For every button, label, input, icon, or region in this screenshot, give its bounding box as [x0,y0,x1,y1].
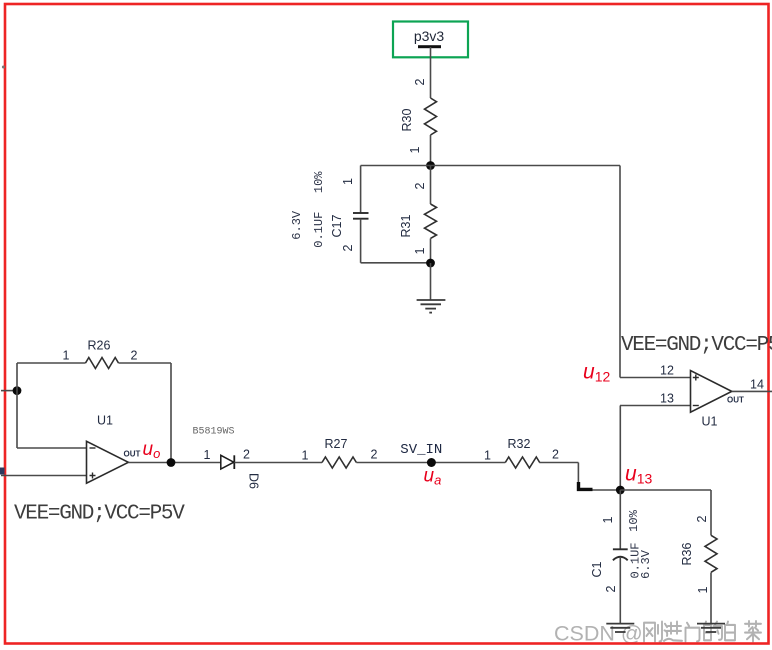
svg-text:0.1UF: 0.1UF [312,212,326,248]
pin minus mark U1 right [693,405,699,407]
wire rail horizontal [361,165,620,167]
resistor R32 [505,457,539,468]
svg-text:1: 1 [302,449,309,463]
svg-text:1: 1 [696,586,710,593]
resistor R36 [705,535,717,572]
diode D6 [221,455,234,469]
wire rail to pin12 vertical [619,166,621,378]
ground symbol R36 [697,624,725,632]
wire C17 top drop [360,166,362,214]
svg-text:U1: U1 [702,415,718,429]
svg-text:R30: R30 [400,108,414,131]
svg-text:1: 1 [341,178,355,185]
power bar symbol [418,45,441,48]
svg-text:1: 1 [413,247,427,254]
WATERMARK [554,621,761,645]
svg-text:R26: R26 [88,339,111,353]
svg-text:OUT: OUT [727,396,744,405]
svg-text:12: 12 [660,364,674,378]
resistor R26 [86,358,119,369]
svg-text:1: 1 [484,449,491,463]
wire R32 to corner [539,462,578,464]
wire junction to ground [430,263,432,300]
ground symbol C1 [606,624,634,632]
wire u13 to R36 branch [620,489,711,491]
svg-text:p3v3: p3v3 [414,28,445,44]
svg-text:2: 2 [552,448,559,462]
svg-text:C1: C1 [590,561,604,577]
wire stub thick corner [579,482,593,489]
svg-text:SV_IN: SV_IN [400,442,442,458]
op-amp U1 right [691,371,732,413]
wire diode to R27 [234,462,322,464]
wire corner down [577,463,579,484]
net stub plus input [0,468,5,475]
resistor R31 [425,204,437,238]
junction node R31/C17/GND [426,259,435,268]
wire p3v3 to R30 [430,47,432,98]
op-amp U1 left [87,441,129,483]
ground symbol top [417,300,446,313]
svg-text:VEE=GND;VCC=P5V: VEE=GND;VCC=P5V [621,334,772,357]
svg-text:2: 2 [243,448,250,462]
wire rail to R31 [430,166,432,205]
svg-text:13: 13 [660,392,674,406]
power port P3V3 green highlight box [393,22,468,58]
svg-text:6.3V: 6.3V [290,210,304,240]
svg-text:1: 1 [204,448,211,462]
capacitor C1 polarized [613,549,628,560]
junction node u_a / SV_IN [427,458,436,467]
wire R31 to junction [430,239,432,263]
svg-text:10%: 10% [312,171,326,193]
wire pin13 down to u13 [619,406,621,491]
wire u13 down to C1 [619,490,621,549]
svg-text:6.3V: 6.3V [639,549,653,579]
junction node u_13 [616,486,625,495]
svg-text:1: 1 [601,516,615,523]
wire minus input [17,447,87,449]
wire branch down to R36 [710,490,712,535]
junction node feedback [13,386,22,395]
wire C17 bottom [360,219,362,263]
svg-text:10%: 10% [627,509,641,531]
svg-text:D6: D6 [246,473,260,489]
svg-text:R31: R31 [399,214,413,237]
svg-text:CSDN @: CSDN @ [554,622,643,646]
svg-text:2: 2 [413,78,427,85]
svg-text:2: 2 [371,448,378,462]
svg-text:1: 1 [408,146,422,153]
wire feedback vertical [16,363,18,448]
svg-text:14: 14 [750,378,764,392]
wire R26 to output drop [119,362,172,364]
pin plus mark U1 right [693,375,699,381]
svg-text:R36: R36 [680,542,694,565]
wire stub to junction u13 [593,489,621,491]
wire R36 to ground [710,573,712,624]
wire op-amp out to diode [128,462,220,464]
wire output pin14 [732,390,772,392]
svg-text:B5819WS: B5819WS [193,427,235,438]
svg-text:2: 2 [413,182,427,189]
cathode bar D6 [233,455,235,469]
wire stub left border to feedback node [1,390,17,392]
svg-text:C17: C17 [330,214,344,237]
svg-text:VEE=GND;VCC=P5V: VEE=GND;VCC=P5V [14,503,185,526]
wire C1 to ground [619,557,621,624]
svg-text:1: 1 [63,349,70,363]
svg-text:R27: R27 [325,437,348,451]
junction node u_o [167,458,176,467]
wire feedback top to R26 [17,362,86,364]
wire R27 to R32 [356,462,505,464]
wire C17 to R31 junction [361,262,431,264]
svg-text:2: 2 [604,585,618,592]
resistor R30 [425,98,437,135]
wire plus input [1,475,87,477]
svg-text:R32: R32 [508,437,531,451]
svg-text:OUT: OUT [124,449,141,458]
pin minus mark U1 left [90,447,96,449]
junction node R30/R31 [426,161,435,170]
pin plus mark U1 left [90,473,96,479]
capacitor C17 [353,213,369,219]
svg-text:2: 2 [341,244,355,251]
svg-text:U1: U1 [97,414,113,428]
wire R30 to rail [430,135,432,166]
wire pin12 horizontal [620,377,691,379]
resistor R27 [322,457,356,468]
svg-text:2: 2 [131,349,138,363]
wire output drop vertical [170,363,172,463]
wire pin13 horizontal [620,405,691,407]
svg-text:2: 2 [695,515,709,522]
